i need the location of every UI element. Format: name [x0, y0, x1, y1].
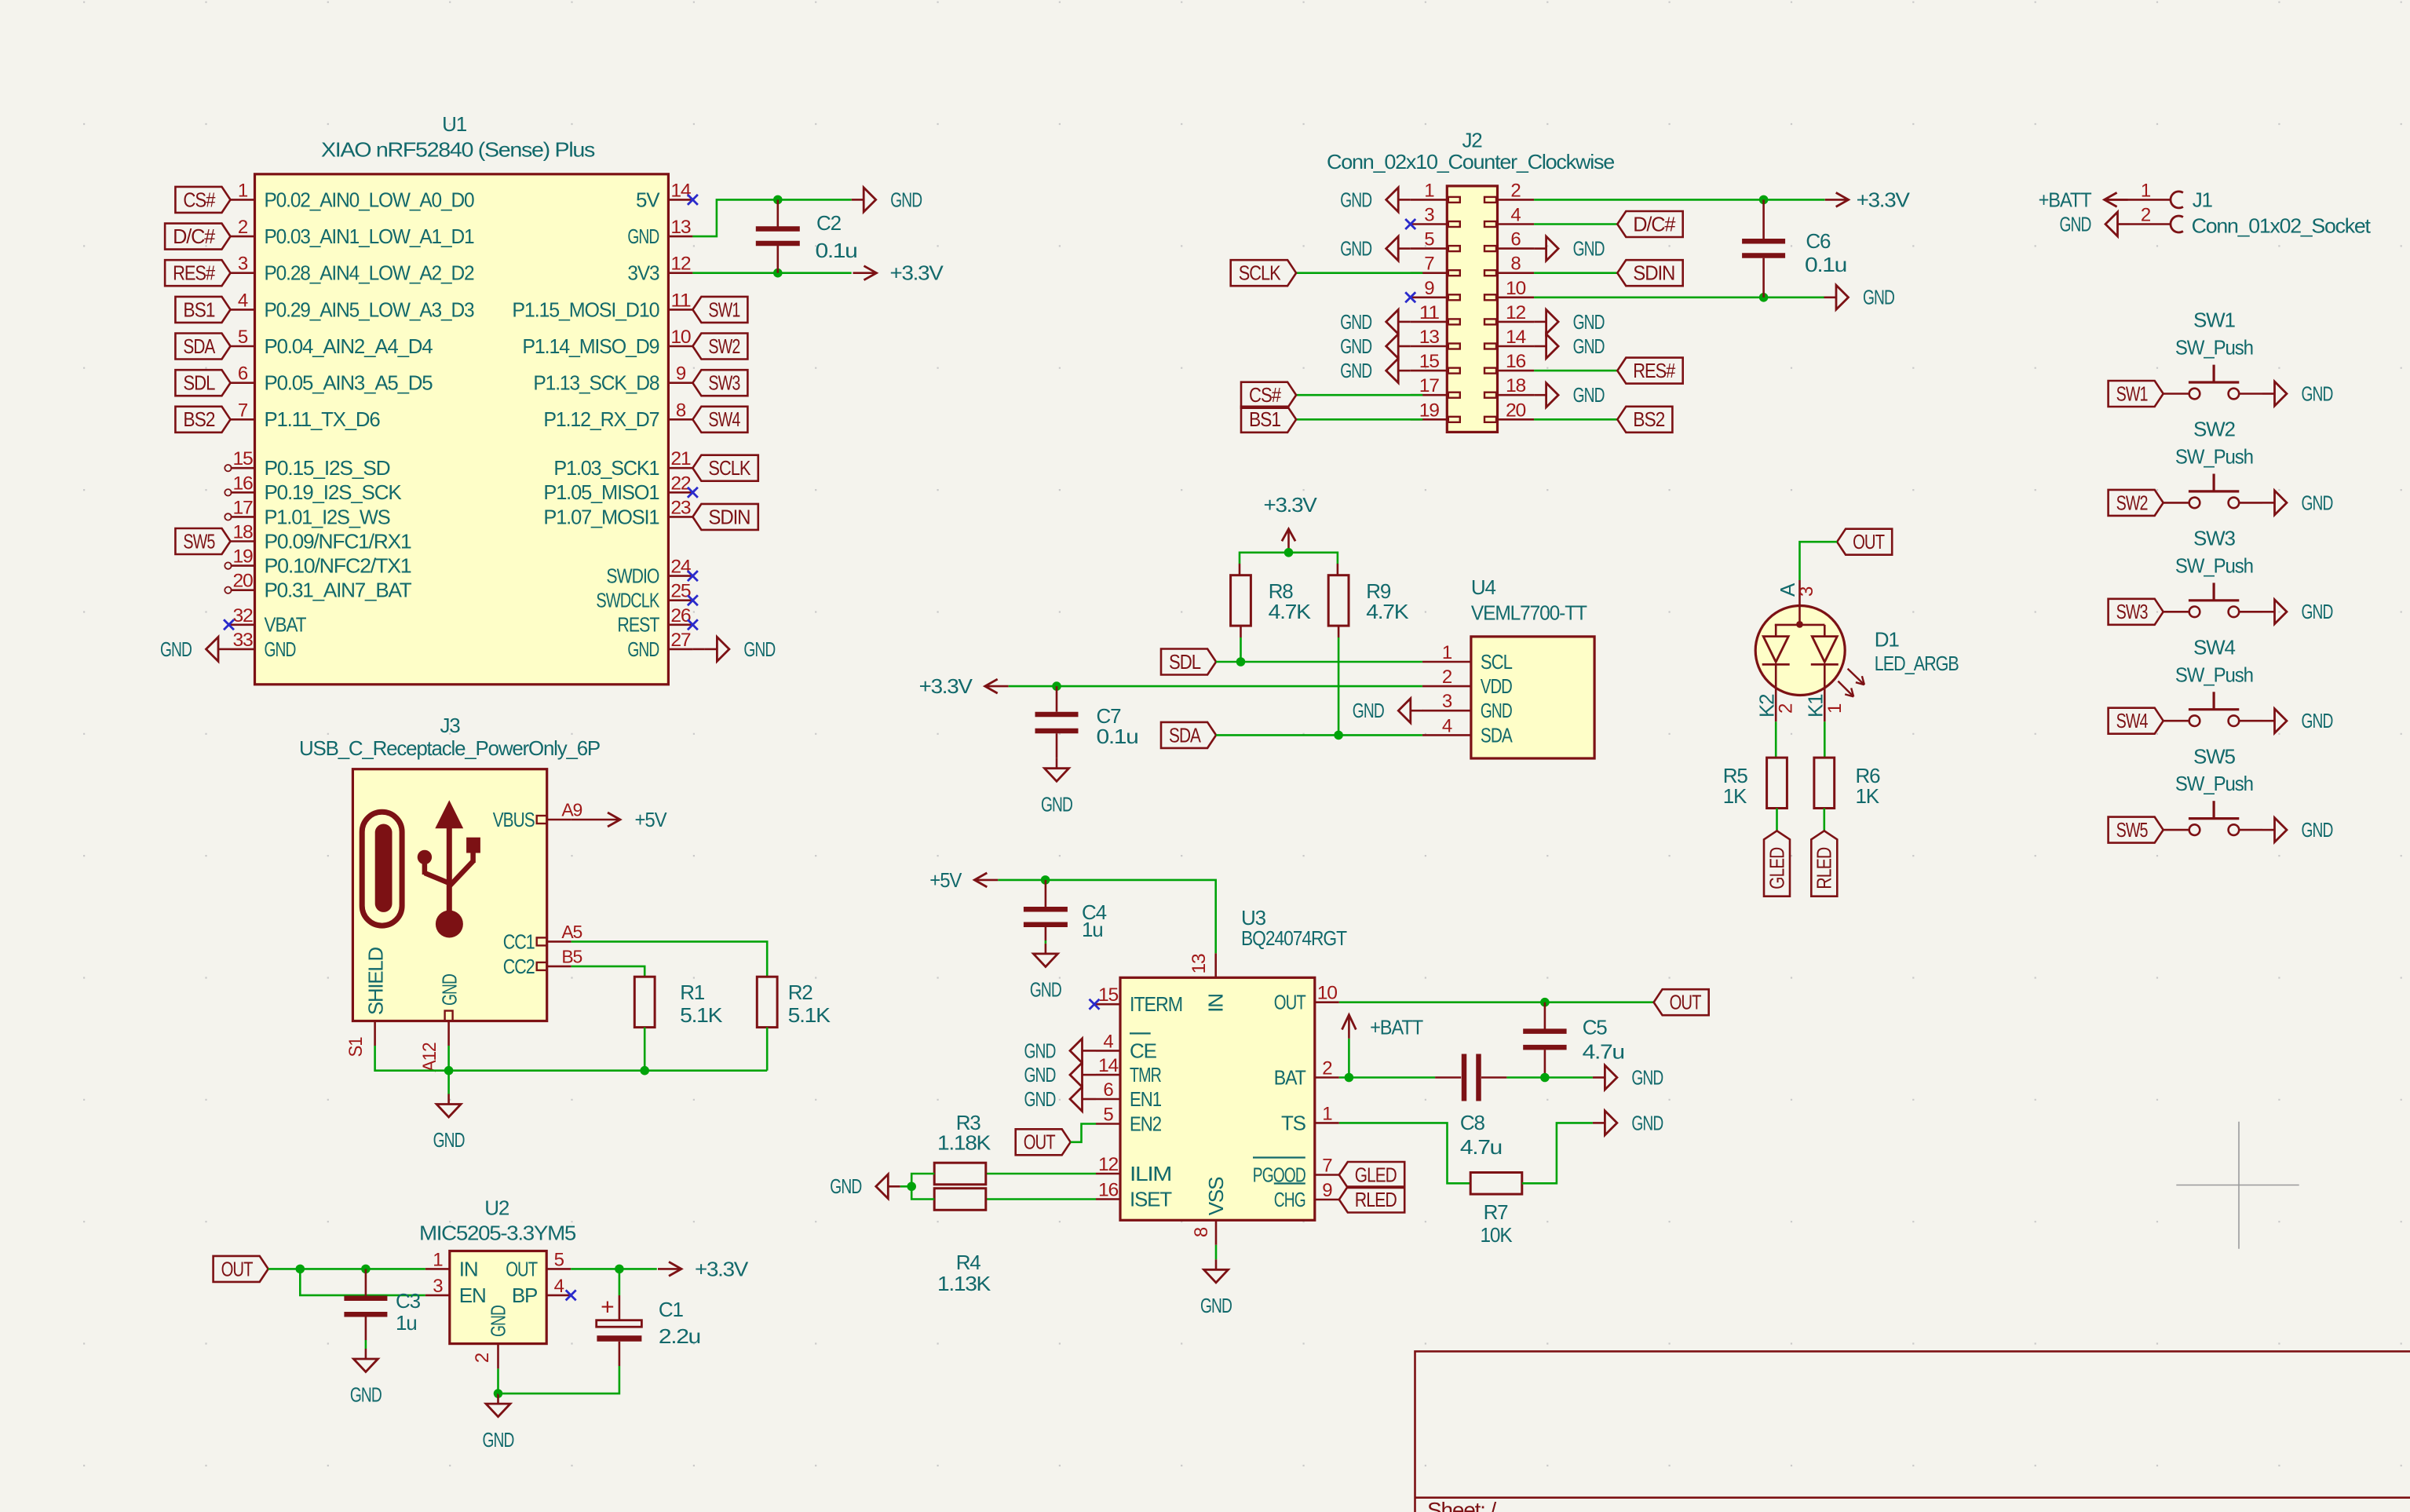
svg-text:TS: TS: [1281, 1111, 1306, 1134]
svg-text:R4: R4: [956, 1251, 981, 1274]
svg-text:P1.13_SCK_D8: P1.13_SCK_D8: [533, 371, 659, 395]
svg-text:26: 26: [670, 605, 691, 626]
svg-text:GND: GND: [627, 225, 659, 248]
svg-text:13: 13: [1419, 327, 1440, 348]
svg-text:+3.3V: +3.3V: [919, 674, 973, 698]
svg-text:ILIM: ILIM: [1130, 1162, 1171, 1185]
svg-text:4: 4: [1510, 205, 1521, 226]
svg-text:6: 6: [238, 363, 248, 385]
svg-text:17: 17: [233, 497, 254, 518]
svg-text:R7: R7: [1484, 1200, 1509, 1224]
svg-text:1: 1: [1442, 642, 1452, 663]
svg-text:SCLK: SCLK: [1239, 261, 1282, 285]
svg-text:CHG: CHG: [1274, 1188, 1305, 1211]
svg-text:R1: R1: [680, 981, 705, 1004]
svg-text:RES#: RES#: [1633, 359, 1675, 382]
svg-text:C6: C6: [1806, 229, 1831, 253]
svg-text:D1: D1: [1875, 627, 1900, 651]
svg-text:GND: GND: [1631, 1065, 1663, 1089]
svg-text:EN: EN: [459, 1284, 486, 1307]
svg-text:GND: GND: [1340, 188, 1371, 211]
svg-text:32: 32: [233, 605, 254, 626]
svg-text:C2: C2: [816, 211, 842, 235]
svg-text:GLED: GLED: [1355, 1163, 1397, 1186]
svg-text:SW4: SW4: [2193, 635, 2235, 659]
svg-text:2: 2: [1442, 667, 1452, 688]
svg-text:GND: GND: [265, 637, 296, 661]
svg-text:EN2: EN2: [1130, 1112, 1162, 1135]
svg-text:SW_Push: SW_Push: [2175, 445, 2253, 469]
svg-text:P1.07_MOSI1: P1.07_MOSI1: [543, 505, 659, 528]
svg-text:Conn_02x10_Counter_Clockwise: Conn_02x10_Counter_Clockwise: [1327, 150, 1615, 173]
svg-text:SW5: SW5: [183, 529, 215, 553]
svg-text:4.7K: 4.7K: [1366, 600, 1409, 623]
svg-text:GLED: GLED: [1765, 847, 1788, 889]
svg-text:J1: J1: [2193, 188, 2213, 211]
svg-text:5V: 5V: [636, 188, 660, 211]
svg-text:P0.02_AIN0_LOW_A0_D0: P0.02_AIN0_LOW_A0_D0: [265, 188, 475, 211]
svg-text:1: 1: [238, 180, 248, 201]
svg-text:P0.28_AIN4_LOW_A2_D2: P0.28_AIN4_LOW_A2_D2: [265, 261, 475, 285]
svg-text:3: 3: [1442, 691, 1452, 712]
svg-text:20: 20: [1506, 400, 1526, 421]
svg-text:GND: GND: [160, 637, 192, 661]
svg-text:SCLK: SCLK: [708, 456, 751, 480]
svg-text:SW5: SW5: [2193, 744, 2235, 768]
svg-text:8: 8: [1191, 1227, 1212, 1237]
svg-text:BS2: BS2: [1633, 407, 1665, 431]
svg-text:4: 4: [1103, 1031, 1113, 1052]
svg-text:GND: GND: [1024, 1063, 1056, 1087]
svg-text:P0.05_AIN3_A5_D5: P0.05_AIN3_A5_D5: [265, 371, 433, 395]
svg-text:U1: U1: [442, 112, 467, 136]
svg-text:5: 5: [238, 327, 248, 348]
svg-text:SW4: SW4: [708, 407, 740, 431]
svg-text:GND: GND: [1573, 310, 1605, 334]
svg-text:OUT: OUT: [1670, 991, 1702, 1014]
svg-text:+3.3V: +3.3V: [695, 1257, 749, 1280]
svg-text:2: 2: [238, 217, 248, 238]
svg-text:4: 4: [554, 1276, 564, 1297]
svg-text:SW3: SW3: [708, 371, 740, 395]
svg-text:4: 4: [238, 290, 248, 311]
svg-text:12: 12: [1506, 302, 1526, 323]
svg-text:2: 2: [1510, 180, 1521, 201]
svg-text:BS1: BS1: [183, 298, 215, 321]
svg-text:15: 15: [233, 448, 254, 469]
svg-text:GND: GND: [487, 1306, 510, 1337]
svg-text:1: 1: [1424, 180, 1434, 201]
svg-text:19: 19: [1419, 400, 1440, 421]
svg-text:GND: GND: [1200, 1294, 1232, 1317]
svg-text:4.7u: 4.7u: [1460, 1135, 1502, 1159]
svg-text:4.7u: 4.7u: [1583, 1040, 1624, 1064]
svg-text:16: 16: [1098, 1180, 1119, 1201]
svg-text:VBUS: VBUS: [493, 808, 535, 831]
svg-text:7: 7: [238, 400, 248, 421]
svg-text:1K: 1K: [1856, 784, 1880, 808]
svg-text:IN: IN: [459, 1257, 478, 1280]
svg-text:+3.3V: +3.3V: [890, 261, 944, 285]
svg-text:MIC5205-3.3YM5: MIC5205-3.3YM5: [419, 1221, 576, 1244]
svg-text:U2: U2: [484, 1196, 509, 1220]
svg-text:REST: REST: [617, 613, 659, 637]
svg-text:GND: GND: [2302, 818, 2333, 842]
svg-text:S1: S1: [345, 1037, 367, 1057]
svg-text:8: 8: [1510, 254, 1521, 275]
svg-text:VEML7700-TT: VEML7700-TT: [1471, 601, 1587, 624]
svg-text:5: 5: [1424, 229, 1434, 250]
svg-text:GND: GND: [2302, 491, 2333, 514]
svg-text:10: 10: [670, 327, 691, 348]
svg-text:14: 14: [670, 180, 691, 201]
svg-text:RLED: RLED: [1355, 1188, 1397, 1211]
svg-text:P0.09/NFC1/RX1: P0.09/NFC1/RX1: [265, 529, 412, 553]
svg-text:20: 20: [233, 571, 254, 592]
svg-text:SDIN: SDIN: [1633, 261, 1674, 285]
svg-text:B5: B5: [561, 946, 582, 966]
svg-text:A9: A9: [561, 800, 582, 820]
svg-text:SDA: SDA: [1169, 723, 1201, 747]
svg-text:24: 24: [670, 557, 691, 578]
svg-text:3V3: 3V3: [627, 261, 659, 285]
svg-text:EN1: EN1: [1130, 1087, 1162, 1111]
svg-text:J3: J3: [440, 714, 460, 737]
svg-text:13: 13: [670, 217, 691, 238]
svg-text:1u: 1u: [396, 1311, 417, 1335]
svg-text:SWDCLK: SWDCLK: [596, 589, 659, 612]
svg-text:7: 7: [1322, 1156, 1332, 1177]
svg-text:+5V: +5V: [635, 808, 668, 831]
svg-text:SCL: SCL: [1481, 650, 1513, 674]
svg-text:C1: C1: [659, 1298, 684, 1321]
svg-text:2.2u: 2.2u: [659, 1324, 700, 1348]
svg-text:14: 14: [1098, 1055, 1119, 1076]
svg-text:C3: C3: [396, 1289, 421, 1313]
svg-text:3: 3: [238, 254, 248, 275]
svg-text:12: 12: [1098, 1154, 1119, 1175]
svg-text:3: 3: [433, 1276, 443, 1297]
svg-text:5.1K: 5.1K: [680, 1003, 723, 1027]
svg-text:1: 1: [1322, 1103, 1332, 1124]
svg-text:SWDIO: SWDIO: [606, 564, 659, 588]
svg-text:P0.10/NFC2/TX1: P0.10/NFC2/TX1: [265, 554, 412, 578]
svg-text:SW_Push: SW_Push: [2175, 663, 2253, 686]
svg-text:GND: GND: [2302, 709, 2333, 732]
svg-text:Conn_01x02_Socket: Conn_01x02_Socket: [2192, 214, 2372, 237]
svg-text:GND: GND: [743, 637, 775, 661]
svg-text:GND: GND: [830, 1174, 861, 1198]
svg-text:CC1: CC1: [503, 929, 535, 953]
svg-text:P1.05_MISO1: P1.05_MISO1: [543, 480, 659, 504]
svg-text:+3.3V: +3.3V: [1857, 188, 1911, 211]
svg-text:9: 9: [1322, 1180, 1332, 1201]
svg-text:GND: GND: [1573, 237, 1605, 261]
svg-text:19: 19: [233, 546, 254, 568]
svg-text:GND: GND: [627, 637, 659, 661]
svg-text:25: 25: [670, 581, 691, 602]
svg-text:7: 7: [1424, 254, 1434, 275]
svg-text:R2: R2: [788, 981, 813, 1004]
svg-text:P1.01_I2S_WS: P1.01_I2S_WS: [265, 505, 391, 528]
svg-text:USB_C_Receptacle_PowerOnly_6P: USB_C_Receptacle_PowerOnly_6P: [299, 736, 600, 760]
svg-text:GND: GND: [350, 1383, 382, 1407]
svg-text:5: 5: [554, 1249, 564, 1270]
svg-text:GND: GND: [1573, 334, 1605, 358]
svg-text:18: 18: [1506, 375, 1526, 396]
svg-text:13: 13: [1189, 954, 1210, 974]
svg-text:ISET: ISET: [1130, 1187, 1172, 1211]
svg-text:GND: GND: [1340, 334, 1371, 358]
svg-text:J2: J2: [1462, 128, 1482, 152]
svg-text:1K: 1K: [1723, 784, 1747, 808]
svg-text:Sheet: /: Sheet: /: [1427, 1498, 1496, 1512]
svg-text:SW2: SW2: [2116, 491, 2149, 514]
svg-text:16: 16: [1506, 351, 1526, 372]
svg-text:P0.31_AIN7_BAT: P0.31_AIN7_BAT: [265, 579, 412, 602]
svg-text:GND: GND: [1863, 286, 1894, 309]
svg-text:GND: GND: [1340, 310, 1371, 334]
svg-text:BS2: BS2: [183, 407, 215, 431]
svg-text:GND: GND: [890, 188, 922, 211]
svg-text:OUT: OUT: [1024, 1130, 1056, 1154]
svg-text:D/C#: D/C#: [173, 225, 216, 248]
svg-text:23: 23: [670, 497, 691, 518]
svg-text:A12: A12: [419, 1043, 440, 1072]
svg-text:15: 15: [1098, 984, 1119, 1006]
svg-text:1.18K: 1.18K: [937, 1130, 991, 1154]
svg-text:22: 22: [670, 473, 691, 494]
svg-text:18: 18: [233, 522, 254, 543]
svg-text:6: 6: [1510, 229, 1521, 250]
svg-text:OUT: OUT: [221, 1257, 254, 1280]
svg-text:+3.3V: +3.3V: [1264, 493, 1318, 517]
svg-text:1u: 1u: [1082, 918, 1103, 941]
svg-text:D/C#: D/C#: [1633, 212, 1676, 236]
svg-text:SDIN: SDIN: [708, 505, 750, 528]
svg-text:GND: GND: [1353, 699, 1384, 722]
svg-text:OUT: OUT: [1853, 530, 1885, 553]
svg-text:GND: GND: [2060, 212, 2091, 236]
svg-text:SDL: SDL: [1169, 650, 1201, 674]
svg-text:21: 21: [670, 448, 691, 469]
svg-text:GND: GND: [1631, 1111, 1663, 1134]
svg-text:IN: IN: [1204, 994, 1228, 1013]
svg-text:2: 2: [1322, 1058, 1332, 1079]
svg-text:SW3: SW3: [2116, 600, 2149, 623]
svg-text:GND: GND: [1024, 1039, 1056, 1062]
svg-text:+BATT: +BATT: [1370, 1016, 1423, 1039]
svg-text:11: 11: [670, 290, 691, 311]
svg-text:SDA: SDA: [1481, 723, 1513, 747]
svg-text:VSS: VSS: [1204, 1177, 1228, 1215]
svg-text:11: 11: [1419, 302, 1440, 323]
svg-text:ITERM: ITERM: [1130, 992, 1182, 1016]
svg-text:GND: GND: [433, 1128, 465, 1152]
svg-text:GND: GND: [2302, 600, 2333, 623]
svg-text:SW5: SW5: [2116, 818, 2149, 842]
svg-text:VBAT: VBAT: [265, 613, 307, 637]
svg-text:XIAO nRF52840 (Sense) Plus: XIAO nRF52840 (Sense) Plus: [321, 138, 595, 162]
svg-text:SW3: SW3: [2193, 527, 2235, 550]
svg-text:P0.03_AIN1_LOW_A1_D1: P0.03_AIN1_LOW_A1_D1: [265, 225, 475, 248]
svg-text:RLED: RLED: [1813, 847, 1836, 889]
svg-text:OUT: OUT: [506, 1257, 538, 1280]
svg-text:8: 8: [676, 400, 686, 421]
svg-text:U4: U4: [1471, 575, 1496, 599]
svg-text:GND: GND: [2302, 382, 2333, 405]
svg-text:SW2: SW2: [708, 334, 740, 358]
svg-text:SW2: SW2: [2193, 418, 2235, 441]
svg-text:5.1K: 5.1K: [788, 1003, 831, 1027]
svg-text:GND: GND: [1573, 383, 1605, 407]
svg-text:17: 17: [1419, 375, 1440, 396]
svg-text:SW1: SW1: [708, 298, 740, 321]
svg-text:GND: GND: [1340, 359, 1371, 382]
svg-text:P0.15_I2S_SD: P0.15_I2S_SD: [265, 456, 390, 480]
svg-text:GND: GND: [1041, 792, 1072, 816]
svg-text:CC2: CC2: [503, 955, 535, 978]
svg-text:GND: GND: [483, 1428, 514, 1452]
svg-text:SDA: SDA: [183, 334, 215, 358]
svg-text:P0.19_I2S_SCK: P0.19_I2S_SCK: [265, 480, 403, 504]
svg-text:1: 1: [1824, 703, 1846, 714]
svg-text:2: 2: [2141, 205, 2151, 226]
svg-text:27: 27: [670, 630, 691, 651]
svg-text:2: 2: [472, 1353, 493, 1363]
svg-text:16: 16: [233, 473, 254, 494]
svg-text:BP: BP: [512, 1284, 537, 1307]
svg-text:9: 9: [676, 363, 686, 385]
svg-text:6: 6: [1103, 1079, 1113, 1101]
svg-text:1: 1: [2141, 180, 2151, 201]
svg-text:10: 10: [1506, 278, 1526, 299]
svg-text:5: 5: [1103, 1105, 1113, 1126]
svg-text:0.1u: 0.1u: [1097, 725, 1138, 748]
svg-text:P1.12_RX_D7: P1.12_RX_D7: [543, 407, 659, 431]
svg-text:C5: C5: [1583, 1015, 1608, 1039]
svg-text:GND: GND: [1481, 699, 1512, 722]
svg-text:2: 2: [1776, 703, 1797, 714]
svg-text:+5V: +5V: [929, 868, 962, 892]
svg-text:SW1: SW1: [2193, 309, 2235, 332]
svg-text:3: 3: [1796, 586, 1817, 597]
svg-text:15: 15: [1419, 351, 1440, 372]
svg-text:GND: GND: [1024, 1087, 1056, 1111]
svg-text:14: 14: [1506, 327, 1526, 348]
svg-text:C8: C8: [1460, 1111, 1485, 1134]
svg-text:K1: K1: [1803, 694, 1827, 718]
svg-text:SW_Push: SW_Push: [2175, 336, 2253, 360]
svg-text:P0.29_AIN5_LOW_A3_D3: P0.29_AIN5_LOW_A3_D3: [265, 298, 475, 321]
svg-text:VDD: VDD: [1481, 674, 1512, 698]
svg-text:4.7K: 4.7K: [1269, 600, 1312, 623]
svg-text:CS#: CS#: [183, 188, 215, 211]
svg-text:P1.14_MISO_D9: P1.14_MISO_D9: [522, 334, 659, 358]
svg-text:P1.15_MOSI_D10: P1.15_MOSI_D10: [512, 298, 659, 321]
svg-text:+: +: [601, 1295, 614, 1320]
svg-text:OUT: OUT: [1274, 991, 1306, 1014]
svg-text:10: 10: [1317, 983, 1338, 1004]
svg-text:TMR: TMR: [1130, 1063, 1161, 1087]
svg-text:0.1u: 0.1u: [1805, 253, 1846, 276]
svg-text:SW_Push: SW_Push: [2175, 772, 2253, 795]
svg-text:SW_Push: SW_Push: [2175, 553, 2253, 577]
svg-text:1: 1: [433, 1249, 443, 1270]
svg-text:SDL: SDL: [183, 371, 215, 395]
svg-text:GND: GND: [438, 974, 462, 1006]
svg-text:9: 9: [1424, 278, 1434, 299]
svg-text:1.13K: 1.13K: [937, 1272, 991, 1295]
svg-text:SW1: SW1: [2116, 382, 2149, 405]
svg-text:10K: 10K: [1481, 1223, 1514, 1247]
svg-text:+BATT: +BATT: [2039, 188, 2092, 211]
svg-text:P0.04_AIN2_A4_D4: P0.04_AIN2_A4_D4: [265, 334, 433, 358]
svg-text:BAT: BAT: [1274, 1065, 1306, 1089]
svg-text:CS#: CS#: [1249, 383, 1281, 407]
svg-text:3: 3: [1424, 205, 1434, 226]
svg-text:33: 33: [233, 630, 254, 651]
svg-text:SW4: SW4: [2116, 709, 2149, 732]
svg-text:GND: GND: [1030, 978, 1061, 1002]
svg-text:LED_ARGB: LED_ARGB: [1875, 652, 1959, 675]
svg-text:BS1: BS1: [1249, 407, 1281, 431]
svg-text:SHIELD: SHIELD: [364, 948, 388, 1015]
svg-text:0.1u: 0.1u: [816, 239, 857, 262]
svg-text:12: 12: [670, 254, 691, 275]
svg-text:P1.03_SCK1: P1.03_SCK1: [553, 456, 659, 480]
svg-text:RES#: RES#: [173, 261, 215, 285]
svg-text:BQ24074RGT: BQ24074RGT: [1241, 926, 1347, 950]
svg-text:CE: CE: [1130, 1039, 1157, 1062]
svg-text:A5: A5: [561, 922, 582, 942]
svg-text:GND: GND: [1340, 237, 1371, 261]
svg-text:P1.11_TX_D6: P1.11_TX_D6: [265, 407, 381, 431]
svg-text:4: 4: [1442, 715, 1452, 736]
